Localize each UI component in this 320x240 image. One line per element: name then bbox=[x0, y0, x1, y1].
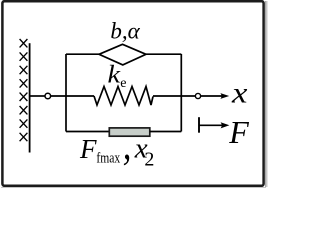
svg-text:b,α: b,α bbox=[110, 19, 140, 44]
mapsto bar bbox=[198, 117, 200, 133]
wall hatch X1 bbox=[20, 39, 28, 47]
node circle left bbox=[45, 93, 51, 99]
wall hatch X4 bbox=[20, 79, 28, 87]
svg-text:x: x bbox=[231, 77, 248, 110]
svg-text:fmax: fmax bbox=[96, 151, 120, 167]
bottom branch right wire bbox=[150, 131, 182, 133]
wall hatch X6 bbox=[20, 106, 28, 114]
arrow x head bbox=[220, 93, 229, 99]
wire node to box bbox=[51, 95, 94, 97]
svg-text:e: e bbox=[120, 76, 126, 91]
svg-text:k: k bbox=[108, 62, 122, 89]
wire wall to node bbox=[30, 95, 45, 97]
box left vertical wire bbox=[65, 54, 67, 132]
top branch left wire bbox=[66, 53, 99, 55]
wall hatch X3 bbox=[20, 66, 28, 74]
svg-text:,: , bbox=[123, 123, 132, 169]
arrow x shaft bbox=[201, 95, 222, 97]
spring ke bbox=[94, 87, 153, 106]
wall hatch X7 bbox=[20, 119, 28, 127]
bottom branch left wire bbox=[66, 131, 109, 133]
svg-text:2: 2 bbox=[144, 148, 154, 170]
wall hatch X2 bbox=[20, 52, 28, 60]
wall hatch X8 bbox=[20, 133, 28, 141]
box right vertical wire bbox=[180, 54, 182, 132]
mapsto arrow head bbox=[221, 122, 230, 128]
svg-text:F: F bbox=[79, 134, 97, 164]
friction block bbox=[109, 128, 150, 136]
wire spring to right bbox=[153, 95, 195, 97]
wall line bbox=[29, 43, 31, 152]
svg-text:F: F bbox=[228, 114, 249, 150]
damper diamond b,alpha bbox=[99, 44, 146, 65]
top branch right wire bbox=[146, 53, 181, 55]
node circle right bbox=[195, 93, 200, 98]
wall hatch X5 bbox=[20, 93, 28, 101]
mapsto shaft bbox=[199, 124, 222, 126]
